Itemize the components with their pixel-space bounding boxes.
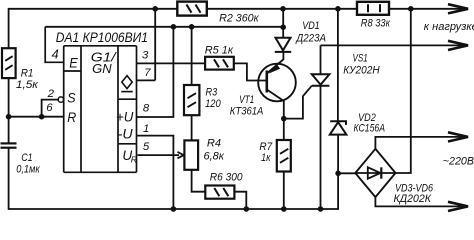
arrow to load bottom bbox=[448, 41, 468, 50]
svg-text:+U: +U bbox=[116, 109, 133, 124]
svg-text:~220В: ~220В bbox=[443, 156, 474, 168]
node R1-C1 junction bbox=[6, 114, 12, 120]
wire VS1 gate link bbox=[284, 86, 312, 119]
svg-text:R6 300: R6 300 bbox=[210, 172, 243, 184]
wire R3 top riser bbox=[191, 27, 193, 85]
wire VD1 anode riser bbox=[282, 9, 284, 38]
svg-text:GN: GN bbox=[92, 61, 112, 76]
wire ground rail bottom bbox=[9, 148, 339, 210]
wire top rail left segment with left drop to R1 bbox=[9, 9, 178, 48]
wire VD1 cathode to VT1 emitter bbox=[282, 52, 284, 60]
svg-text:120: 120 bbox=[205, 98, 221, 110]
node ground rail / pin1 bbox=[171, 206, 177, 212]
wire bridge bottom to mains arrow bbox=[375, 197, 466, 206]
svg-text:R5 1к: R5 1к bbox=[205, 45, 234, 57]
svg-text:КД202К: КД202К bbox=[394, 193, 433, 205]
resistor R3 bbox=[184, 85, 199, 115]
node ground rail / VS1 cathode bbox=[318, 206, 324, 212]
wire pin7 node rail drop x155 bbox=[154, 9, 156, 81]
bridge rectifier VD3-VD6 bbox=[355, 149, 395, 197]
wire R5 to VT1 base bbox=[234, 63, 267, 80]
wire VS1 anode from load line bbox=[320, 45, 322, 74]
capacitor C1 bbox=[1, 143, 17, 147]
variable resistor R4 bbox=[184, 140, 198, 169]
svg-text:R2 360к: R2 360к bbox=[219, 13, 259, 25]
wire pin 5 to R4 wiper bbox=[138, 154, 179, 156]
wire bridge left node to bridge bbox=[338, 172, 355, 174]
arrow to load top bbox=[448, 4, 468, 13]
svg-text:КС156А: КС156А bbox=[354, 123, 386, 135]
svg-text:C1: C1 bbox=[21, 152, 32, 164]
svg-text:6: 6 bbox=[46, 102, 53, 114]
svg-text:Д223А: Д223А bbox=[295, 32, 326, 44]
svg-text:КТ361А: КТ361А bbox=[230, 106, 264, 118]
resistor R1 bbox=[2, 48, 16, 78]
svg-text:8: 8 bbox=[143, 103, 150, 115]
wire top rail middle segment R2 to R8 bbox=[207, 8, 357, 10]
resistor R7 bbox=[277, 140, 291, 172]
wire pins 2-6 tie bbox=[9, 100, 64, 117]
svg-text:R8 33к: R8 33к bbox=[361, 17, 391, 29]
node ground rail / R7 bbox=[281, 206, 287, 212]
node top rail / VD2 branch bbox=[335, 6, 341, 12]
wire R1 to C1 bbox=[8, 78, 10, 143]
zener diode VD2 bbox=[330, 121, 347, 134]
svg-text:к нагрузке: к нагрузке bbox=[424, 21, 474, 33]
diode VD1 bbox=[275, 38, 291, 52]
svg-text:R: R bbox=[67, 110, 76, 125]
arrow mains top bbox=[448, 132, 468, 141]
arrow mains bottom bbox=[448, 202, 468, 211]
node VT1 collector / R7 / gate bbox=[281, 116, 287, 122]
resistor R2 bbox=[177, 2, 207, 16]
node supply wire / VD1 anode bbox=[280, 24, 286, 30]
svg-text:5: 5 bbox=[143, 141, 150, 153]
wire pin 7 stub bbox=[137, 79, 156, 81]
svg-text:7: 7 bbox=[144, 67, 151, 79]
wire top rail right segment R8 to load arrow bbox=[389, 8, 466, 10]
svg-text:1,5к: 1,5к bbox=[16, 79, 39, 91]
node ground rail / R6 bbox=[244, 206, 250, 212]
wire VT1 collector drop bbox=[283, 101, 285, 140]
transistor VT1 bbox=[258, 59, 296, 101]
node pins 2-6 tie bbox=[39, 114, 45, 120]
wire VD2 cathode riser x338 bbox=[337, 9, 339, 122]
svg-text:1: 1 bbox=[143, 123, 149, 135]
wire pin 1 ground drop bbox=[137, 136, 174, 209]
svg-text:VD1: VD1 bbox=[302, 20, 320, 32]
svg-text:2: 2 bbox=[47, 88, 55, 100]
node top rail / bridge riser bbox=[408, 6, 414, 12]
svg-text:0,1мк: 0,1мк bbox=[16, 163, 40, 175]
svg-text:КУ202Н: КУ202Н bbox=[343, 64, 380, 76]
wire pin 8 supply riser bbox=[137, 27, 174, 117]
wire bridge top to mains arrow bbox=[375, 137, 466, 149]
wire R3 to R4 link bbox=[191, 115, 193, 140]
resistor R5 bbox=[205, 57, 234, 70]
wire R4 bottom to R6 bbox=[192, 170, 206, 192]
node top rail / pin7 feed bbox=[152, 6, 158, 12]
node supply wire / pin8 riser bbox=[171, 24, 177, 30]
IC DA1 KR1006VI1 outline bbox=[45, 27, 136, 173]
svg-text:-U: -U bbox=[118, 127, 133, 142]
wire IC header top and +U distribution y27 bbox=[45, 26, 283, 28]
wire load line 2 bbox=[321, 44, 467, 46]
svg-text:3: 3 bbox=[142, 49, 149, 61]
svg-text:R4: R4 bbox=[207, 138, 221, 150]
svg-text:6,8к: 6,8к bbox=[204, 150, 225, 162]
svg-text:R: R bbox=[131, 155, 137, 165]
svg-text:1к: 1к bbox=[261, 152, 271, 164]
resistor R8 bbox=[357, 2, 389, 15]
node top rail / VD1 branch bbox=[280, 6, 286, 12]
svg-text:R3: R3 bbox=[206, 87, 218, 99]
node supply wire / R3 riser bbox=[189, 24, 195, 30]
svg-text:VS1: VS1 bbox=[353, 53, 368, 65]
wire R6 to ground rail bbox=[234, 192, 246, 209]
resistor R6 bbox=[205, 186, 234, 199]
svg-text:4: 4 bbox=[52, 46, 59, 61]
wire bridge right riser to top rail bbox=[396, 9, 411, 173]
R4 wiper arrow bbox=[178, 152, 184, 158]
svg-text:E: E bbox=[69, 56, 78, 71]
thyristor VS1 bbox=[312, 74, 330, 85]
wire pin 3 output line bbox=[137, 62, 206, 64]
node VD2 anode / bridge left bbox=[335, 171, 341, 177]
svg-text:VT1: VT1 bbox=[239, 94, 254, 106]
svg-text:S: S bbox=[67, 91, 76, 106]
svg-text:DA1 КР1006ВИ1: DA1 КР1006ВИ1 bbox=[56, 30, 148, 45]
IC open-collector diamond symbol bbox=[121, 76, 132, 92]
wire R7 bottom to ground rail bbox=[283, 172, 285, 210]
wire VS1 cathode to ground rail bbox=[320, 86, 322, 209]
IC pin 2 inversion circle bbox=[58, 97, 63, 102]
svg-text:R1: R1 bbox=[21, 68, 34, 80]
wire VD2 anode to bridge left node bbox=[337, 135, 339, 174]
